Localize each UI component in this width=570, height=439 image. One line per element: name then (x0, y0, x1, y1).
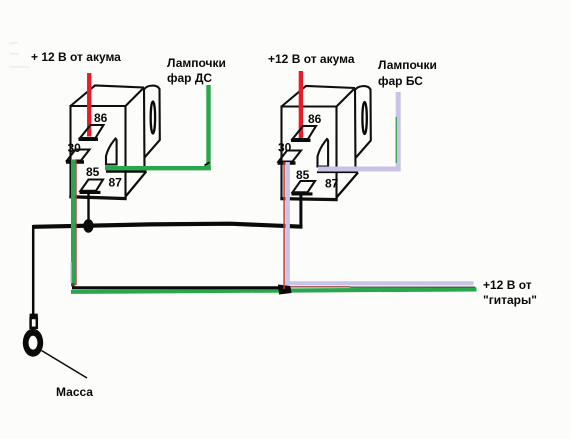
relay K1 pin 30 spade (67, 150, 90, 161)
wire lavender K2.87 to BS lamps horizontal (318, 167, 401, 172)
relay K1 top face (71, 86, 145, 107)
wire black from K2 pin 85 down (299, 194, 302, 228)
relay K2 mounting tab (356, 86, 371, 158)
black tick at green corner (205, 162, 210, 165)
relay K2 tab hole (362, 102, 366, 134)
wire green K1.87 to DS lamps vertical (206, 85, 210, 170)
svg-text:85: 85 (86, 165, 100, 179)
svg-text:Лампочки: Лампочки (378, 58, 437, 72)
relay K2 pin 85 spade base (292, 192, 313, 195)
relay K1 pin 85 spade (81, 180, 104, 191)
relay K2 bottom edge (280, 199, 337, 200)
wire green from K1 pin 30 down (71, 160, 75, 287)
svg-text:+12 В от: +12 В от (483, 278, 532, 292)
black arrow blob at lavender corner (278, 285, 292, 295)
wire thin red from K2 pin 30 (283, 162, 285, 289)
svg-text:87: 87 (109, 176, 123, 190)
relay K1 mounting tab (145, 86, 160, 158)
svg-text:Масса: Масса (56, 385, 93, 399)
svg-text:фар БС: фар БС (378, 74, 423, 88)
svg-text:30: 30 (68, 141, 82, 155)
thin green sliver in lavender vertical (395, 117, 397, 163)
svg-text:87: 87 (325, 177, 339, 191)
relay K1 pin 85 spade base (80, 191, 101, 194)
svg-text:фар ДС: фар ДС (167, 71, 212, 85)
wire lavender from K2 pin 30 down (285, 162, 290, 285)
wire green bottom horizontal to gitara (71, 289, 477, 291)
relay K1 pin 86 spade (80, 125, 104, 138)
relay K2 pin 30 spade base (278, 161, 296, 164)
dark red corner blob (71, 283, 74, 286)
black short wire above green bottom (72, 286, 279, 289)
relay K1 front face (71, 106, 126, 197)
junction dot (83, 219, 93, 233)
svg-text:+ 12 В от акума: + 12 В от акума (31, 50, 121, 64)
faint erased marks (9, 43, 29, 68)
svg-text:"гитары": "гитары" (483, 293, 537, 307)
lavender sliver left of green corner (70, 262, 72, 283)
wire black from K1 pin 85 down (87, 193, 89, 224)
black bus wire horizontal (33, 224, 303, 227)
thin maroon line above green right part (290, 286, 350, 288)
svg-text:86: 86 (94, 111, 108, 125)
svg-text:85: 85 (296, 168, 310, 182)
relay K2 pin 87 top edge (317, 171, 358, 173)
relay K2 top face (282, 86, 356, 107)
svg-text:86: 86 (308, 112, 322, 126)
wire lavender bottom horizontal to gitara (285, 281, 474, 285)
relay K2 pin 85 spade (293, 181, 316, 192)
wire thin red from K1 pin 30 (75, 160, 77, 285)
relay K2 pin 30 spade (279, 151, 302, 162)
svg-text:Лампочки: Лампочки (167, 56, 226, 70)
relay K1 middle blade fin (106, 139, 117, 165)
ground ring terminal outer (23, 329, 43, 357)
ground crimp barrel (30, 314, 38, 319)
relay K2 pin 86 spade base (291, 139, 311, 142)
wire red +12V into K1 pin 86 (87, 73, 91, 137)
relay K1 pin 87 top edge (106, 170, 147, 173)
relay K1 pin 86 spade base (79, 138, 99, 141)
wire green K1.87 to DS lamps horizontal (105, 166, 211, 170)
relay K2 back right edge (354, 88, 357, 172)
relay K1 bottom edge (69, 197, 126, 199)
relay K2 middle blade fin (318, 139, 329, 167)
relay K1 pin 30 spade base (66, 160, 84, 163)
relay K1 back right edge (143, 88, 146, 172)
relay K2 front face (282, 107, 337, 199)
relay K1 pin 87 blade diagonal (126, 171, 146, 196)
relay K1 tab hole (151, 102, 155, 134)
ground ring terminal hole (29, 336, 38, 350)
wire red +12V into K2 pin 86 (299, 71, 303, 140)
relay K2 pin 86 spade (293, 126, 317, 139)
wire lavender BS lamps vertical (396, 92, 401, 171)
relay K2 pin 87 blade diagonal (337, 173, 359, 198)
wire black to ground (32, 225, 35, 314)
dark top edge of green wire right part (350, 286, 475, 288)
svg-text:+12 В от акума: +12 В от акума (268, 52, 355, 66)
ground pointer line (42, 351, 88, 379)
